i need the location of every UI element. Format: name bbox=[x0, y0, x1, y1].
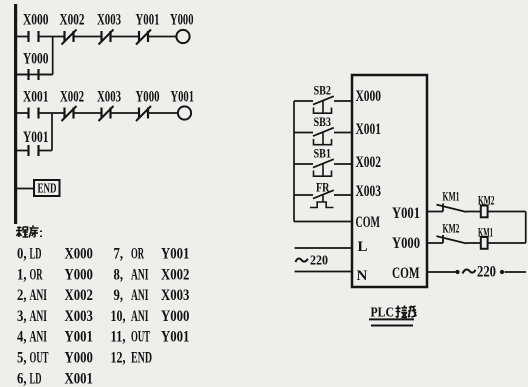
svg-text:SB2: SB2 bbox=[314, 83, 332, 98]
svg-text:Y001: Y001 bbox=[161, 329, 189, 346]
svg-text:ANI: ANI bbox=[131, 287, 149, 304]
svg-text:X003: X003 bbox=[97, 89, 121, 106]
svg-text:X002: X002 bbox=[161, 266, 189, 283]
svg-text:7,: 7, bbox=[114, 246, 124, 263]
svg-text:X001: X001 bbox=[23, 89, 49, 106]
svg-text:Y000: Y000 bbox=[23, 51, 49, 68]
svg-text:Y000: Y000 bbox=[392, 235, 420, 252]
svg-text:220: 220 bbox=[310, 254, 328, 269]
svg-text:ANI: ANI bbox=[30, 329, 48, 346]
svg-text:SB3: SB3 bbox=[314, 114, 332, 129]
svg-text:ANI: ANI bbox=[131, 266, 149, 283]
svg-text:Y001: Y001 bbox=[65, 329, 93, 346]
svg-text:1,: 1, bbox=[17, 266, 27, 283]
svg-text:OUT: OUT bbox=[30, 350, 49, 367]
svg-text:X000: X000 bbox=[65, 246, 93, 263]
svg-text:8,: 8, bbox=[114, 266, 124, 283]
svg-text:LD: LD bbox=[30, 246, 42, 263]
svg-text:X003: X003 bbox=[356, 183, 382, 200]
svg-text:KM1: KM1 bbox=[443, 189, 460, 204]
svg-text:X001: X001 bbox=[65, 370, 93, 387]
svg-text:X001: X001 bbox=[356, 121, 382, 138]
svg-text:Y000: Y000 bbox=[170, 12, 194, 29]
svg-text:ANI: ANI bbox=[131, 308, 149, 325]
svg-text:Y001: Y001 bbox=[23, 129, 49, 146]
svg-text:X002: X002 bbox=[65, 287, 93, 304]
svg-text:SB1: SB1 bbox=[314, 146, 332, 161]
svg-text:4,: 4, bbox=[17, 329, 27, 346]
svg-text:ANI: ANI bbox=[30, 287, 48, 304]
svg-text:ANI: ANI bbox=[30, 308, 48, 325]
svg-text:COM: COM bbox=[356, 214, 381, 231]
svg-text:X003: X003 bbox=[161, 287, 189, 304]
svg-text:9,: 9, bbox=[114, 287, 124, 304]
svg-text:220: 220 bbox=[477, 263, 496, 280]
svg-text:X000: X000 bbox=[23, 12, 49, 29]
svg-text:X000: X000 bbox=[356, 88, 382, 105]
svg-text:N: N bbox=[357, 268, 368, 284]
svg-text:OUT: OUT bbox=[131, 329, 150, 346]
svg-text:END: END bbox=[38, 181, 57, 196]
svg-text:Y000: Y000 bbox=[136, 89, 160, 106]
svg-text:KM2: KM2 bbox=[478, 193, 495, 208]
svg-text:X002: X002 bbox=[60, 12, 85, 29]
svg-text:X002: X002 bbox=[356, 154, 382, 171]
svg-text:OR: OR bbox=[30, 266, 43, 283]
svg-text:LD: LD bbox=[30, 370, 42, 387]
svg-text:Y000: Y000 bbox=[65, 266, 93, 283]
svg-text:0,: 0, bbox=[17, 246, 27, 263]
svg-text:X003: X003 bbox=[97, 12, 121, 29]
svg-text:3,: 3, bbox=[17, 308, 27, 325]
svg-text:KM2: KM2 bbox=[443, 221, 460, 236]
svg-text:Y001: Y001 bbox=[171, 89, 195, 106]
svg-text:2,: 2, bbox=[17, 287, 27, 304]
svg-text:FR: FR bbox=[316, 180, 330, 195]
svg-text:OR: OR bbox=[131, 246, 144, 263]
svg-text:Y001: Y001 bbox=[161, 246, 189, 263]
svg-text:X002: X002 bbox=[60, 89, 84, 106]
svg-text:KM1: KM1 bbox=[478, 225, 493, 240]
svg-text:12,: 12, bbox=[111, 350, 126, 367]
svg-text:COM: COM bbox=[392, 265, 420, 282]
svg-text:10,: 10, bbox=[111, 308, 126, 325]
svg-text:L: L bbox=[358, 239, 368, 255]
svg-text:Y001: Y001 bbox=[136, 12, 160, 29]
svg-text:PLC: PLC bbox=[371, 305, 395, 320]
svg-text:6,: 6, bbox=[17, 370, 27, 387]
svg-text:Y000: Y000 bbox=[65, 350, 93, 367]
svg-text:Y001: Y001 bbox=[392, 205, 420, 222]
svg-text:X003: X003 bbox=[65, 308, 93, 325]
svg-text:5,: 5, bbox=[17, 350, 27, 367]
svg-text:END: END bbox=[131, 350, 152, 367]
svg-text:Y000: Y000 bbox=[161, 308, 189, 325]
svg-text:11,: 11, bbox=[111, 329, 126, 346]
